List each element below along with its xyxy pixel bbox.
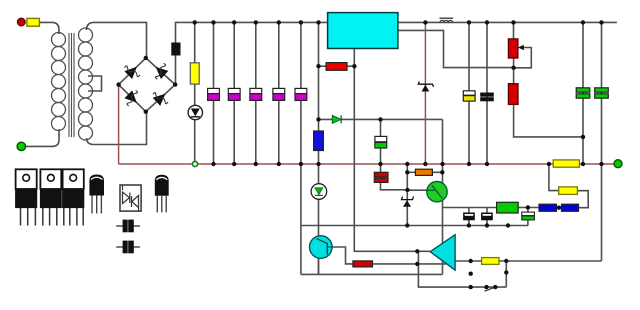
inductor L1 [440, 18, 454, 22]
node green ring [192, 161, 197, 166]
bridge node + (right) [173, 82, 177, 86]
wire VR1 bottom to R8 [513, 58, 515, 84]
transformer T1 core [69, 33, 74, 137]
wire Q1 base line [407, 189, 427, 191]
wire U1 pin2 to VR1 wiper node [398, 30, 514, 67]
resistor R1 (yellow vertical) [190, 63, 199, 84]
wire feedback line y225 from C5 branch [301, 225, 528, 227]
capacitor C3 [250, 88, 262, 100]
capacitor C4 [273, 88, 285, 100]
transistor Q1 (green) [427, 182, 447, 202]
wire C12 bottom to base node [381, 182, 408, 189]
terminal J2 (neutral) [17, 142, 25, 150]
wire C2 branch [233, 22, 235, 164]
TO-220 package Q5 [63, 169, 84, 225]
wire C12 top from rail [380, 164, 382, 172]
resistor R14 (yellow) [482, 258, 499, 265]
wire C9 branch [486, 22, 488, 164]
capacitor C9 (ceramic) [481, 93, 494, 101]
wire C1 branch [213, 22, 215, 164]
resistor R2 (blue vertical) [314, 131, 324, 151]
resistor R12 (blue) [562, 204, 579, 211]
wire C15 bottom lead [468, 220, 470, 226]
bridge diode D3 [124, 90, 137, 106]
TO-220 package Q3 [16, 169, 37, 225]
wire C10 branch [582, 22, 584, 164]
capacitor C14 (small green) [522, 212, 535, 220]
capacitor C2 [228, 88, 240, 100]
wire R7 sense loop [549, 164, 559, 191]
wire R9 leads [407, 171, 442, 173]
bridge node - (left) [116, 82, 120, 86]
wire top +V rail (right of U1) [398, 21, 617, 23]
resistor R10 (yellow) [559, 187, 578, 195]
wire Q1 emitter to K1 line [443, 207, 497, 209]
TO-92 package Q7 [155, 175, 169, 213]
bridge rectifier frame [119, 58, 176, 112]
diode D6 (green) [332, 115, 341, 123]
wire Q1 collector vertical [442, 119, 444, 274]
relay K1 (green) [497, 202, 519, 213]
wire C14 lead down [527, 208, 529, 213]
wire output switch vertical [505, 261, 507, 287]
bottom rail junctions [211, 162, 603, 166]
resistor R7 (yellow, on rail) [553, 160, 579, 167]
bridge diode D4 [153, 93, 168, 106]
switch S1 [485, 287, 496, 291]
diode D5 (circled) [188, 105, 202, 119]
wire bottom return rail (red) [119, 163, 614, 165]
optocoupler U3 [120, 185, 141, 211]
bridge node AC2 [144, 110, 148, 114]
wire op-amp inverting input line [332, 247, 353, 264]
wire bridge + node to fuse F2 [175, 55, 177, 85]
capacitor C8 (yellow) [463, 91, 475, 101]
bridge node AC1 [144, 56, 148, 60]
wire zener D8 branch (red) [424, 22, 426, 164]
wire Q2 emitter stub [318, 258, 320, 274]
capacitor C15 [464, 213, 475, 220]
wire R2 branch vertical [318, 22, 320, 164]
wire R3 left lead [319, 65, 327, 67]
wire D6 node line [319, 118, 443, 120]
resistor R8 (red vertical) [508, 84, 518, 105]
wire op-amp output line [455, 260, 601, 262]
terminal J1 (live) [18, 18, 26, 26]
wire fuse F2 to top rail [176, 22, 195, 43]
zener diode D8 [418, 82, 433, 92]
wire zener D9 branch vertical [406, 164, 408, 226]
wire R13 to op-amp [373, 263, 447, 265]
terminal J3 (output) [614, 160, 622, 168]
wire C16 top lead [486, 208, 488, 214]
resistor R3 (red) [326, 63, 347, 71]
wire C14 bottom to y225 line [527, 220, 529, 226]
transformer T1 secondary winding [79, 28, 93, 140]
TO-220 package Q4 [40, 169, 61, 225]
wire C11 / op-amp out branch [601, 22, 603, 261]
fuse F1 [27, 18, 40, 26]
capacitor C12 (red) [374, 172, 388, 182]
capacitor C6 (package) [116, 220, 140, 232]
capacitor C16 [482, 213, 493, 220]
wire top +V rail (left of U1) [195, 21, 328, 23]
wire secondary bottom to bridge AC2 [87, 112, 147, 145]
resistor R9 (orange) [415, 169, 432, 175]
wire R3 right lead [347, 65, 354, 67]
resistor R11 (blue) [539, 204, 557, 211]
wire K1 to R11 lead [518, 207, 539, 209]
wire op-amp input tie vertical [418, 251, 506, 287]
capacitor C7 (package) [116, 241, 140, 253]
resistor R13 (red) [353, 261, 373, 267]
capacitor C1 [208, 88, 220, 100]
bridge diode D1 [124, 66, 139, 79]
diode D7 (circled green) [311, 184, 327, 200]
op-amp U2 [430, 235, 455, 270]
transistor Q2 (cyan) [310, 236, 333, 259]
TO-92 package Q6 [89, 175, 104, 214]
wire C8 branch [468, 22, 470, 164]
wire C16 bottom lead [486, 220, 488, 226]
wire bridge - node down (red) [118, 85, 120, 164]
potentiometer VR1 [508, 39, 523, 58]
capacitor C13 (green) [375, 136, 387, 148]
wire C15 top lead [468, 208, 470, 214]
wire secondary top to bridge AC1 [87, 22, 147, 58]
wire LED D7 / Q2 branch below rail [318, 164, 320, 274]
wire node below C5 branch to feedback loop [300, 164, 302, 274]
fuse F2 (black) [172, 43, 180, 55]
regulator U1 [328, 13, 398, 49]
capacitor C10 (green) [576, 88, 590, 98]
wire C4 branch [278, 22, 280, 164]
wire R12 to R10 loop [577, 191, 588, 208]
capacitor C11 (green) [595, 88, 609, 98]
wire primary bottom to terminal [26, 129, 60, 146]
wire LED D5 branch [194, 22, 196, 164]
wire R8 bottom to C10 node [514, 104, 583, 136]
transformer T1 center tap [88, 76, 102, 91]
wire VR1 wiper loop [514, 48, 532, 68]
wire C13 branch [380, 119, 382, 164]
zener diode D9 [402, 197, 414, 207]
transformer T1 primary winding [52, 33, 66, 131]
wire U1 pin ADJ down to op-amp input [354, 49, 430, 252]
wire VR1 top from rail [513, 22, 515, 39]
wire C5 branch [300, 22, 302, 164]
bridge diode D2 [155, 63, 168, 79]
top rail junctions [193, 20, 604, 24]
wire bottom loop y274 [301, 273, 443, 275]
wire fuse F1 to transformer primary [39, 22, 59, 34]
capacitor C5 [295, 88, 307, 100]
wire C3 branch [255, 22, 257, 164]
wire R11 R12 junction [557, 207, 562, 209]
